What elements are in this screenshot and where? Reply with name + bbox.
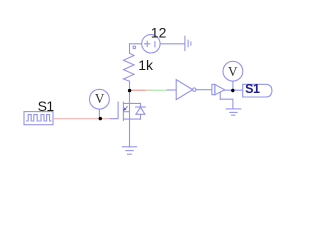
inverter U1 triangle xyxy=(176,80,192,100)
wire digital transition segment xyxy=(145,89,152,91)
voltmeter V2 circle xyxy=(90,89,110,109)
svg-text:1k: 1k xyxy=(138,57,154,73)
DtoA U2 ground stub xyxy=(219,92,221,99)
body diode D1 cathode bar xyxy=(136,106,146,108)
mosfet M1 drain stub and diode top wire xyxy=(123,102,140,104)
wire green to inverter input xyxy=(167,89,177,91)
DtoA U2 rectangle xyxy=(212,84,215,94)
ground G1 bar 3 xyxy=(190,42,192,45)
body diode D1 anode lead xyxy=(140,114,142,119)
wire node A digital red segment xyxy=(130,89,145,91)
wire rail corner down to resistor top xyxy=(129,44,131,53)
pin marker dot xyxy=(133,46,136,49)
wire battery right lead xyxy=(160,43,185,45)
wire S1 to gate (pink) xyxy=(53,118,110,120)
pulse source S1 waveform xyxy=(27,115,52,121)
svg-text:V: V xyxy=(95,91,105,106)
mosfet M1 gate lead xyxy=(110,102,118,119)
node C junction dot xyxy=(99,117,102,120)
wire inverter output to DtoA xyxy=(196,89,212,91)
node A junction dot xyxy=(128,89,131,92)
ground G3 bar 1 xyxy=(122,146,136,148)
mosfet M1 body stub xyxy=(123,111,129,113)
tag flag S1 xyxy=(243,84,272,97)
pulse source S1 box xyxy=(24,112,53,125)
ground G2 bar 1 xyxy=(226,108,241,110)
wire resistor bottom to node A xyxy=(129,81,131,103)
ground G3 bar 3 xyxy=(128,153,132,155)
mosfet M1 source stub and diode bottom wire xyxy=(123,118,140,120)
wire battery left lead to rail corner xyxy=(130,43,142,45)
body diode D1 cathode lead xyxy=(140,103,142,107)
svg-text:V: V xyxy=(228,64,238,79)
voltmeter V3 circle xyxy=(223,61,243,81)
mosfet M1 drain-source vertical xyxy=(129,103,131,119)
DtoA U2 triangle xyxy=(215,84,225,94)
battery V1 plus sign xyxy=(145,41,150,46)
wire ground jog right xyxy=(220,99,233,109)
ground G1 bar 2 xyxy=(187,40,189,47)
mosfet M1 channel bar xyxy=(122,102,124,120)
svg-text:S1: S1 xyxy=(38,98,55,114)
inverter U1 bubble xyxy=(193,88,196,91)
resistor R1 zigzag xyxy=(124,53,135,81)
svg-text:12: 12 xyxy=(151,25,167,41)
wire voltmeter V2 stem xyxy=(98,109,100,118)
battery V1 minus bar xyxy=(154,42,156,47)
wire voltmeter V3 stem xyxy=(232,81,234,89)
ground G1 bar 1 xyxy=(184,36,186,50)
ground G2 bar 3 xyxy=(232,114,235,116)
wire digital green segment xyxy=(152,89,167,91)
body diode D1 triangle xyxy=(136,107,145,114)
node B junction dot xyxy=(231,89,234,92)
battery V1 circle xyxy=(142,35,160,53)
svg-text:S1: S1 xyxy=(245,82,260,96)
wire DtoA output to node B and tag xyxy=(225,89,243,91)
ground G3 bar 2 xyxy=(126,150,133,152)
wire mosfet source to ground xyxy=(129,119,131,147)
ground G2 bar 2 xyxy=(230,111,237,113)
mosfet M1 body arrow xyxy=(125,106,128,109)
